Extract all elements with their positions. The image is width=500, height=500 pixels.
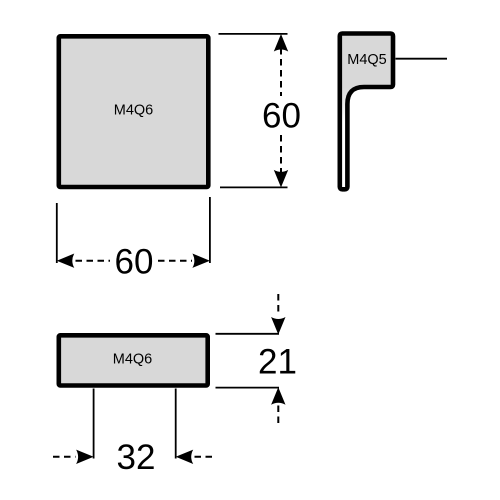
svg-text:M4Q6: M4Q6 xyxy=(114,103,154,119)
svg-text:M4Q6: M4Q6 xyxy=(113,352,153,368)
svg-text:21: 21 xyxy=(258,343,297,382)
svg-text:60: 60 xyxy=(262,97,301,136)
svg-text:60: 60 xyxy=(115,243,154,282)
svg-text:32: 32 xyxy=(117,438,156,477)
svg-text:M4Q5: M4Q5 xyxy=(347,52,387,68)
